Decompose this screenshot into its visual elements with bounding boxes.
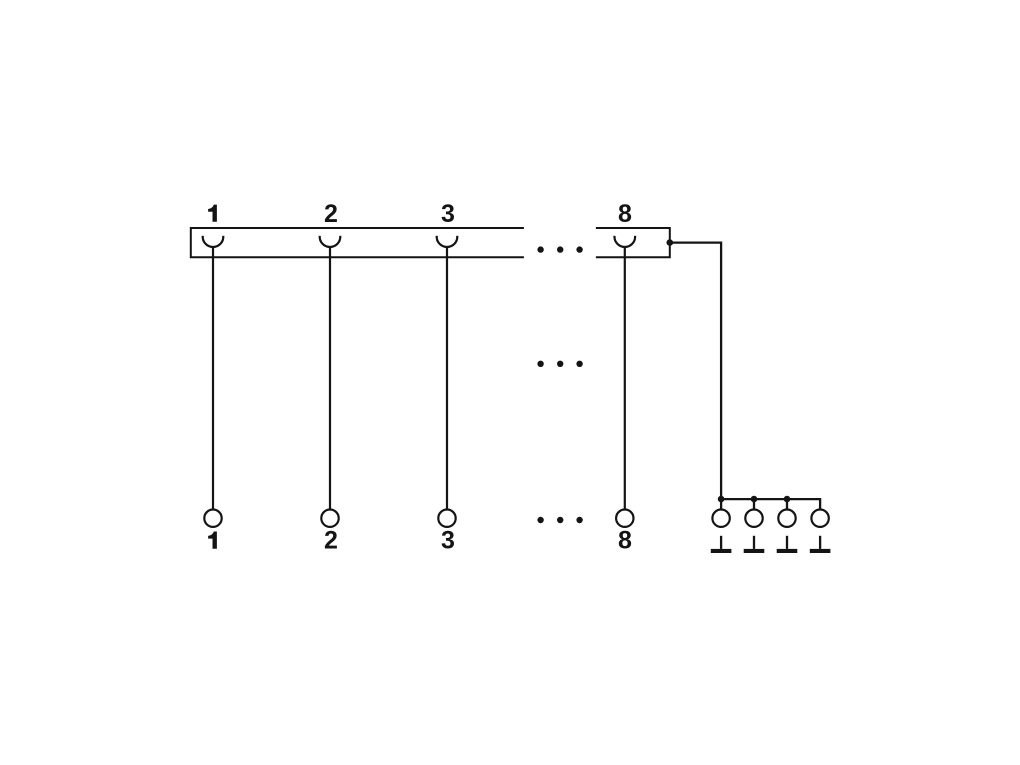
junction node bus 2 [751,496,758,503]
ground symbol 4 [810,536,831,553]
stub bus to ground terminal 3 [786,499,788,508]
socket pin 3 [437,236,458,247]
svg-text:2: 2 [324,527,338,555]
wire pin 8 to terminal 8 [624,247,626,509]
svg-text:8: 8 [618,527,632,555]
wire pin 3 to terminal 3 [446,247,448,509]
socket pin 8 [614,236,635,247]
pin 1 top label [208,205,217,222]
ground terminal 1 [712,510,729,527]
ground symbol 3 [777,536,798,553]
ellipsis dots bottom row [537,517,582,523]
ground symbol 1 [711,536,732,553]
ground symbol 2 [744,536,765,553]
wire pin 1 to terminal 1 [212,247,214,509]
stub bus to ground terminal 1 [720,499,722,508]
svg-text:8: 8 [618,200,632,228]
connector box left segment [191,228,524,257]
wire pin 2 to terminal 2 [329,247,331,509]
terminal 3 [438,510,455,527]
ground terminal 3 [778,510,795,527]
junction node bus 3 [784,496,791,503]
terminal 8 [616,510,633,527]
ellipsis dots top row [537,246,582,252]
terminal 1 label [208,532,217,549]
svg-text:3: 3 [441,527,455,555]
ground terminal 4 [811,510,828,527]
junction node on box output [667,239,674,246]
terminal 1 [204,510,221,527]
socket pin 1 [203,236,224,247]
connector box right segment [596,228,670,257]
ground bus wire [721,499,820,508]
stub bus to ground terminal 2 [753,499,755,508]
junction node bus 1 [718,496,725,503]
terminal 2 [321,510,338,527]
ellipsis dots middle row [537,361,582,367]
wire box to ground bus [670,243,721,500]
ground terminal 2 [745,510,762,527]
socket pin 2 [320,236,341,247]
svg-text:2: 2 [324,200,338,228]
svg-text:3: 3 [441,200,455,228]
